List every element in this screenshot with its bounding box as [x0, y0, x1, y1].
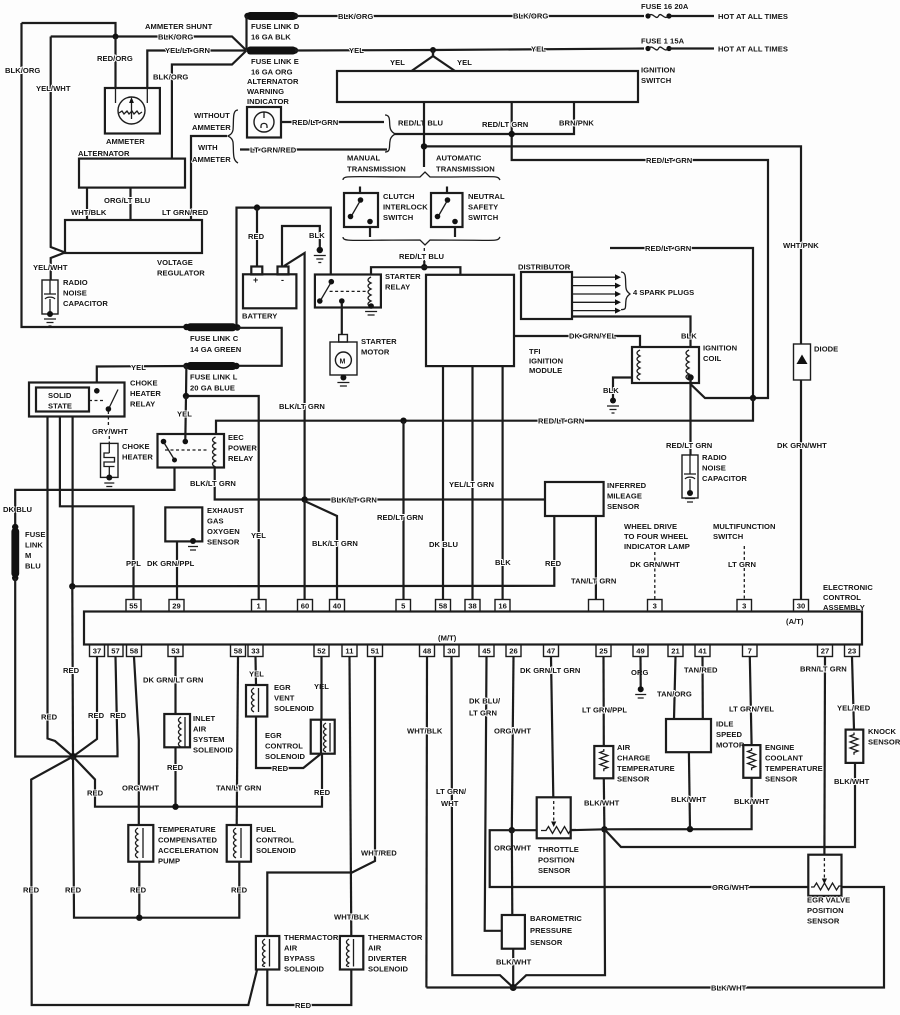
wire coil BLK ground — [613, 378, 632, 399]
svg-text:LINK: LINK — [25, 541, 43, 550]
svg-text:COMPENSATED: COMPENSATED — [158, 836, 218, 845]
svg-text:IDLE: IDLE — [716, 720, 734, 729]
svg-text:ENGINE: ENGINE — [765, 743, 794, 752]
svg-text:RED: RED — [314, 788, 331, 797]
wire RED/LT GRN ign stub — [512, 103, 768, 399]
pin 48 — [420, 645, 435, 657]
svg-text:RED: RED — [65, 886, 82, 895]
neutral safety switch — [431, 193, 463, 227]
svg-text:DK BLU: DK BLU — [3, 505, 32, 514]
junction dot shunt node — [113, 34, 119, 40]
svg-text:26: 26 — [509, 647, 518, 656]
wire DK GRN/LT GRN pin47 — [551, 657, 553, 797]
svg-text:VENT: VENT — [274, 694, 295, 703]
svg-text:1: 1 — [257, 602, 262, 611]
svg-text:DIVERTER: DIVERTER — [368, 954, 407, 963]
svg-text:PRESSURE: PRESSURE — [530, 926, 572, 935]
voltage regulator — [65, 220, 202, 253]
svg-text:OXYGEN: OXYGEN — [207, 527, 240, 536]
svg-text:ALTERNATOR: ALTERNATOR — [78, 149, 130, 158]
svg-text:FUSE 1 15A: FUSE 1 15A — [641, 37, 685, 46]
svg-text:57: 57 — [111, 647, 120, 656]
svg-text:TEMPERATURE: TEMPERATURE — [765, 764, 823, 773]
EGR valve position sensor — [808, 855, 841, 896]
wire fuse link D to E tie — [245, 16, 247, 51]
svg-text:INFERRED: INFERRED — [607, 481, 647, 490]
pin 5 — [396, 600, 411, 612]
pin 21 — [668, 645, 683, 657]
wire TAN/RED pin41 — [701, 657, 703, 719]
pin 45 — [479, 645, 494, 657]
svg-text:RELAY: RELAY — [228, 454, 253, 463]
svg-text:RED: RED — [130, 886, 147, 895]
wire TAN/LT GRN pin58d — [237, 657, 238, 825]
choke heater — [101, 443, 119, 477]
svg-text:RED: RED — [231, 886, 248, 895]
svg-text:CHOKE: CHOKE — [130, 379, 158, 388]
svg-text:THERMACTOR: THERMACTOR — [368, 933, 423, 942]
svg-text:WITH: WITH — [198, 143, 218, 152]
svg-text:BLK/LT GRN: BLK/LT GRN — [312, 539, 358, 548]
svg-text:52: 52 — [317, 647, 326, 656]
svg-text:MULTIFUNCTION: MULTIFUNCTION — [713, 522, 776, 531]
svg-text:RED/LT GRN: RED/LT GRN — [666, 441, 712, 450]
wire YEL to ignition switch right — [433, 50, 455, 71]
pin 1 — [252, 600, 267, 612]
pin row1 — [126, 600, 809, 612]
svg-text:HOT AT ALL TIMES: HOT AT ALL TIMES — [718, 45, 788, 54]
pin 7 — [743, 645, 758, 657]
junction dot idle motor — [687, 826, 693, 832]
thermactor air diverter solenoid — [340, 936, 363, 970]
svg-text:RADIO: RADIO — [63, 278, 88, 287]
svg-text:DK GRN/YEL: DK GRN/YEL — [569, 332, 617, 341]
svg-text:SOLENOID: SOLENOID — [193, 746, 234, 755]
junction dot YEL split — [430, 47, 436, 53]
svg-text:16 GA BLK: 16 GA BLK — [251, 33, 291, 42]
wire BLK/ORG top row to fuse 16 — [295, 15, 644, 17]
svg-text:WHEEL DRIVE: WHEEL DRIVE — [624, 522, 677, 531]
svg-text:BLK: BLK — [309, 231, 325, 240]
svg-text:SWITCH: SWITCH — [383, 213, 413, 222]
wire BLK/WHT down to V — [513, 829, 605, 987]
svg-text:BRN/PNK: BRN/PNK — [559, 119, 594, 128]
svg-text:BLK: BLK — [681, 332, 697, 341]
svg-text:RED: RED — [110, 711, 127, 720]
svg-text:BLK/LT GRN: BLK/LT GRN — [331, 496, 377, 505]
wire throttle right rail — [571, 778, 752, 830]
wire DK GRN/PPL pin29 — [176, 541, 178, 599]
svg-text:DK GRN/LT GRN: DK GRN/LT GRN — [143, 676, 203, 685]
fuse link C — [183, 324, 189, 330]
svg-text:STARTER: STARTER — [385, 272, 421, 281]
svg-text:CONTROL: CONTROL — [256, 836, 294, 845]
svg-text:LT GRN/YEL: LT GRN/YEL — [729, 705, 774, 714]
svg-text:CLUTCH: CLUTCH — [383, 192, 415, 201]
pin 38 — [465, 600, 480, 612]
ammeter — [105, 88, 160, 134]
svg-text:SOLENOID: SOLENOID — [368, 965, 409, 974]
junction dot throttle right — [601, 826, 607, 832]
svg-text:DK GRN/WHT: DK GRN/WHT — [777, 441, 827, 450]
wire LT GRN/YEL pin7 — [750, 657, 752, 745]
svg-text:STARTER: STARTER — [361, 337, 397, 346]
wire LT GRN/RED with ammeter — [240, 148, 387, 150]
starter relay — [315, 275, 381, 308]
svg-text:ACCELERATION: ACCELERATION — [158, 846, 218, 855]
TFI ignition module — [426, 275, 514, 366]
svg-text:IGNITION: IGNITION — [529, 357, 563, 366]
svg-text:MOTOR: MOTOR — [716, 741, 745, 750]
wire RED inlet air — [174, 747, 176, 806]
svg-text:BLK: BLK — [495, 558, 511, 567]
pin 37 — [90, 645, 105, 657]
svg-text:ORG/WHT: ORG/WHT — [122, 784, 159, 793]
svg-text:IGNITION: IGNITION — [641, 66, 675, 75]
pin 60 — [298, 600, 313, 612]
wire to HOT AT ALL TIMES 1 — [669, 15, 714, 17]
svg-text:ORG/WHT: ORG/WHT — [494, 727, 531, 736]
pin 16 — [495, 600, 510, 612]
svg-text:WHT: WHT — [441, 799, 459, 808]
svg-text:BLK/ORG: BLK/ORG — [153, 73, 188, 82]
wire DK GRN/WHT diode to pin30 — [800, 380, 802, 600]
svg-text:5: 5 — [401, 602, 406, 611]
svg-text:WITHOUT: WITHOUT — [194, 111, 230, 120]
svg-text:SENSOR: SENSOR — [207, 538, 240, 547]
ignition coil — [632, 347, 699, 383]
svg-text:DK BLU/: DK BLU/ — [469, 697, 501, 706]
svg-text:BLK: BLK — [603, 386, 619, 395]
svg-text:SENSOR: SENSOR — [617, 775, 650, 784]
svg-text:LT GRN/RED: LT GRN/RED — [162, 208, 209, 217]
svg-text:33: 33 — [251, 647, 260, 656]
svg-text:BLK/LT GRN: BLK/LT GRN — [279, 402, 325, 411]
svg-text:SENSOR: SENSOR — [607, 502, 640, 511]
pin row2 — [90, 645, 860, 657]
wire RED/LT GRN indicator — [281, 121, 384, 123]
svg-text:LT GRN: LT GRN — [469, 709, 497, 718]
svg-text:LT GRN: LT GRN — [728, 560, 756, 569]
svg-text:BYPASS: BYPASS — [284, 954, 315, 963]
wire fuse C to fuse L tie — [236, 328, 281, 366]
pin 30 b — [444, 645, 459, 657]
pin 25 — [596, 645, 611, 657]
wire relay to starter motor — [341, 303, 343, 335]
wire RED/LT BLU to starter relay — [423, 248, 425, 261]
svg-text:VOLTAGE: VOLTAGE — [157, 258, 193, 267]
svg-text:POSITION: POSITION — [807, 906, 844, 915]
air charge temperature sensor — [594, 746, 613, 778]
svg-text:RED: RED — [88, 711, 105, 720]
wire RED/LT GRN top loop — [610, 248, 753, 398]
wire ORG/WHT to EGR valve sensor — [490, 830, 809, 887]
svg-text:CAPACITOR: CAPACITOR — [702, 474, 747, 483]
svg-text:INDICATOR LAMP: INDICATOR LAMP — [624, 542, 690, 551]
wire TFI BLK pin16 — [502, 366, 504, 599]
pin 23 — [845, 645, 860, 657]
svg-text:SENSOR: SENSOR — [530, 938, 563, 947]
svg-text:PUMP: PUMP — [158, 857, 180, 866]
wire YEL to ignition switch left — [412, 50, 434, 71]
wire YEL pin33 — [254, 657, 257, 685]
pin 3 a — [648, 600, 663, 612]
svg-text:CONTROL: CONTROL — [265, 742, 303, 751]
svg-text:TEMPERATURE: TEMPERATURE — [158, 825, 216, 834]
svg-text:BRN/LT GRN: BRN/LT GRN — [800, 665, 847, 674]
svg-text:NOISE: NOISE — [63, 289, 87, 298]
wire RED/ORG to ammeter — [114, 37, 116, 89]
wire BLK/LT GRN pin40 — [305, 501, 337, 600]
svg-text:TRANSMISSION: TRANSMISSION — [347, 165, 406, 174]
svg-text:YEL/WHT: YEL/WHT — [33, 263, 68, 272]
svg-text:SYSTEM: SYSTEM — [193, 735, 225, 744]
wire YEL choke relay — [97, 366, 187, 383]
svg-text:POSITION: POSITION — [538, 856, 575, 865]
wire RED pin57 — [73, 657, 118, 756]
spark plug wires — [572, 274, 621, 313]
svg-text:BLK/ORG: BLK/ORG — [338, 12, 373, 21]
wire ORG pin49 ground — [639, 657, 641, 687]
wire ORG/LT BLU — [129, 188, 131, 220]
svg-text:FUSE LINK E: FUSE LINK E — [251, 57, 299, 66]
wire RED X down mid — [73, 757, 239, 918]
svg-text:BLK/ORG: BLK/ORG — [513, 12, 548, 21]
junction dot RED — [69, 583, 75, 589]
solid state wire 3 RED — [71, 417, 73, 587]
svg-text:AMMETER SHUNT: AMMETER SHUNT — [145, 22, 213, 31]
svg-text:TFI: TFI — [529, 347, 541, 356]
svg-text:23: 23 — [848, 647, 857, 656]
brace spark plugs — [621, 272, 630, 310]
svg-text:45: 45 — [482, 647, 491, 656]
svg-text:LT GRN/PPL: LT GRN/PPL — [582, 706, 627, 715]
inlet air system solenoid — [164, 714, 190, 747]
radio noise capacitor C2 — [682, 455, 698, 498]
svg-text:SENSOR: SENSOR — [868, 738, 900, 747]
wire BLK/ORG to alternator — [172, 51, 247, 159]
svg-text:FUSE LINK C: FUSE LINK C — [190, 334, 239, 343]
barometric pressure sensor — [502, 915, 525, 949]
svg-text:55: 55 — [129, 602, 138, 611]
knock sensor — [846, 730, 864, 763]
svg-text:41: 41 — [698, 647, 707, 656]
wire RED battery — [256, 208, 258, 267]
wire LT GRN/RED — [191, 136, 227, 220]
wire coil bottom diagonal — [691, 378, 754, 399]
svg-text:RED: RED — [295, 1001, 312, 1010]
wire ammeter shunt BLK/ORG — [51, 37, 247, 51]
svg-text:47: 47 — [547, 647, 556, 656]
svg-text:21: 21 — [671, 647, 680, 656]
svg-text:RELAY: RELAY — [385, 283, 410, 292]
svg-text:RED: RED — [248, 232, 265, 241]
solid state wire 2 to PPL — [60, 417, 134, 600]
fuse link E — [247, 47, 296, 55]
wire BLK/WHT barometric — [512, 949, 514, 988]
wire WHT/BLK — [86, 188, 88, 220]
wire YEL/LT GRN to ammeter — [147, 51, 246, 89]
svg-text:WHT/RED: WHT/RED — [361, 849, 397, 858]
svg-text:BLK/WHT: BLK/WHT — [496, 958, 532, 967]
svg-text:YEL: YEL — [457, 58, 472, 67]
svg-text:49: 49 — [636, 647, 645, 656]
junction dot RED/LT BLU — [421, 143, 427, 149]
svg-text:TAN/LT GRN: TAN/LT GRN — [571, 577, 616, 586]
svg-text:BLK/WHT: BLK/WHT — [734, 797, 770, 806]
svg-text:BLK/ORG: BLK/ORG — [5, 66, 40, 75]
svg-text:RED: RED — [23, 886, 40, 895]
svg-text:BAROMETRIC: BAROMETRIC — [530, 914, 582, 923]
svg-text:CHOKE: CHOKE — [122, 442, 150, 451]
svg-text:ORG/WHT: ORG/WHT — [712, 883, 749, 892]
svg-text:FUSE 16 20A: FUSE 16 20A — [641, 2, 689, 11]
svg-text:SWITCH: SWITCH — [468, 213, 498, 222]
svg-text:NEUTRAL: NEUTRAL — [468, 192, 505, 201]
svg-text:MOTOR: MOTOR — [361, 348, 390, 357]
svg-text:YEL: YEL — [531, 45, 546, 54]
battery feed node — [237, 208, 331, 328]
svg-text:3: 3 — [653, 602, 657, 611]
svg-text:BLK/WHT: BLK/WHT — [671, 795, 707, 804]
svg-text:AMMETER: AMMETER — [192, 123, 231, 132]
svg-text:DK GRN/LT GRN: DK GRN/LT GRN — [520, 666, 580, 675]
warning indicator lamp — [247, 107, 281, 138]
wire DK BLU/LT GRN pin45 — [485, 657, 502, 931]
svg-text:60: 60 — [301, 602, 310, 611]
svg-text:BLK/LT GRN: BLK/LT GRN — [190, 479, 236, 488]
wire RED X to bottom left — [31, 757, 257, 1006]
electronic control assembly box — [84, 612, 862, 645]
svg-text:CONTROL: CONTROL — [823, 593, 861, 602]
pin 30 — [794, 600, 809, 612]
svg-text:AIR: AIR — [193, 725, 207, 734]
pin 33 — [248, 645, 263, 657]
svg-text:LT GRN/RED: LT GRN/RED — [250, 146, 297, 155]
svg-text:THROTTLE: THROTTLE — [538, 845, 579, 854]
wire TAN/LT GRN blank pin — [595, 516, 597, 600]
svg-text:YEL/LT GRN: YEL/LT GRN — [165, 46, 210, 55]
svg-text:REGULATOR: REGULATOR — [157, 269, 205, 278]
svg-text:GRY/WHT: GRY/WHT — [92, 427, 128, 436]
svg-text:16 GA ORG: 16 GA ORG — [251, 68, 293, 77]
svg-text:16: 16 — [498, 602, 507, 611]
wire ORG/WHT pin26 — [512, 657, 514, 830]
battery — [243, 274, 296, 308]
svg-text:30: 30 — [797, 602, 806, 611]
svg-text:58: 58 — [234, 647, 243, 656]
svg-text:(A/T): (A/T) — [786, 617, 804, 626]
svg-text:WHT/BLK: WHT/BLK — [407, 727, 443, 736]
svg-text:SOLID: SOLID — [48, 391, 72, 400]
EEC power relay — [158, 434, 225, 468]
pin 26 — [506, 645, 521, 657]
wire DK GRN/YEL — [514, 336, 640, 347]
junction dot throttle left — [509, 827, 515, 833]
pin 11 — [342, 645, 357, 657]
svg-text:BLK/ORG: BLK/ORG — [158, 33, 193, 42]
wire YEL/RED pin23 — [852, 657, 854, 730]
junction dot coil bottom — [687, 374, 693, 380]
wire YEL/WHT top — [51, 37, 65, 281]
svg-text:THERMACTOR: THERMACTOR — [284, 933, 339, 942]
wire RED/LT BLU merged — [394, 103, 574, 135]
pin 41 — [695, 645, 710, 657]
wire BLK/WHT diag to knock rail — [604, 763, 855, 847]
svg-text:FUSE LINK D: FUSE LINK D — [251, 22, 300, 31]
wire WHT/RED pin51 to bypass — [267, 657, 375, 936]
svg-text:RED: RED — [545, 559, 562, 568]
svg-text:YEL: YEL — [390, 58, 405, 67]
pin 29 — [169, 600, 184, 612]
wire YEL pin52 — [320, 657, 322, 720]
svg-text:MILEAGE: MILEAGE — [607, 492, 642, 501]
clutch interlock switch — [344, 193, 378, 227]
svg-text:25: 25 — [599, 647, 608, 656]
fuse link M — [12, 524, 18, 530]
svg-text:PPL: PPL — [126, 559, 141, 568]
svg-text:SPEED: SPEED — [716, 730, 742, 739]
pin 58 c — [127, 645, 142, 657]
svg-text:EXHAUST: EXHAUST — [207, 506, 244, 515]
svg-text:SWITCH: SWITCH — [641, 76, 671, 85]
wire BLK/WHT idle motor — [689, 752, 690, 829]
wire RED/LT GRN pin 5 — [402, 421, 404, 600]
svg-text:RED/ORG: RED/ORG — [97, 54, 133, 63]
svg-text:SENSOR: SENSOR — [538, 866, 571, 875]
svg-text:WARNING: WARNING — [247, 87, 284, 96]
svg-text:M: M — [340, 359, 346, 366]
svg-text:4 SPARK PLUGS: 4 SPARK PLUGS — [633, 288, 694, 297]
wire WHT/BLK pin48 — [425, 657, 428, 988]
svg-text:51: 51 — [371, 647, 380, 656]
wire to HOT AT ALL TIMES 2 — [669, 47, 714, 49]
svg-text:TAN/RED: TAN/RED — [684, 666, 718, 675]
choke heater relay / solid state — [29, 383, 125, 417]
svg-text:ORG/LT BLU: ORG/LT BLU — [104, 196, 151, 205]
wire ORG/WHT pin58 to pump — [134, 657, 139, 825]
svg-text:AMMETER: AMMETER — [192, 155, 231, 164]
svg-text:3: 3 — [742, 602, 746, 611]
svg-text:BLU: BLU — [25, 562, 41, 571]
pin 47 — [544, 645, 559, 657]
svg-text:(M/T): (M/T) — [438, 634, 457, 643]
svg-text:ELECTRONIC: ELECTRONIC — [823, 583, 873, 592]
svg-text:20 GA BLUE: 20 GA BLUE — [190, 384, 235, 393]
throttle position sensor — [537, 797, 571, 838]
svg-text:AUTOMATIC: AUTOMATIC — [436, 154, 482, 163]
wire DK GRN/LT GRN pin53 — [174, 657, 176, 714]
svg-text:RED/LT GRN: RED/LT GRN — [377, 513, 423, 522]
svg-text:SOLENOID: SOLENOID — [265, 752, 306, 761]
wire BLK battery ground — [282, 226, 320, 267]
wire LT GRN/PPL pin25 — [602, 657, 604, 746]
svg-text:NOISE: NOISE — [702, 464, 726, 473]
svg-text:58: 58 — [439, 602, 448, 611]
wire EEC relay to fuse link M — [15, 468, 174, 527]
svg-text:RED/LT GRN: RED/LT GRN — [645, 244, 691, 253]
X node junction — [70, 753, 77, 760]
svg-text:WHT/BLK: WHT/BLK — [71, 208, 107, 217]
svg-text:DK GRN/PPL: DK GRN/PPL — [147, 559, 195, 568]
svg-text:YEL: YEL — [251, 531, 266, 540]
svg-text:EEC: EEC — [228, 433, 244, 442]
wire BLK/LT GRN relay out — [215, 468, 545, 500]
wire WHT/BLK pin11 to diverter — [350, 657, 352, 936]
svg-text:YEL/RED: YEL/RED — [837, 704, 871, 713]
wire BLK/ORG left main — [22, 23, 187, 327]
svg-text:BLK/WHT: BLK/WHT — [584, 799, 620, 808]
